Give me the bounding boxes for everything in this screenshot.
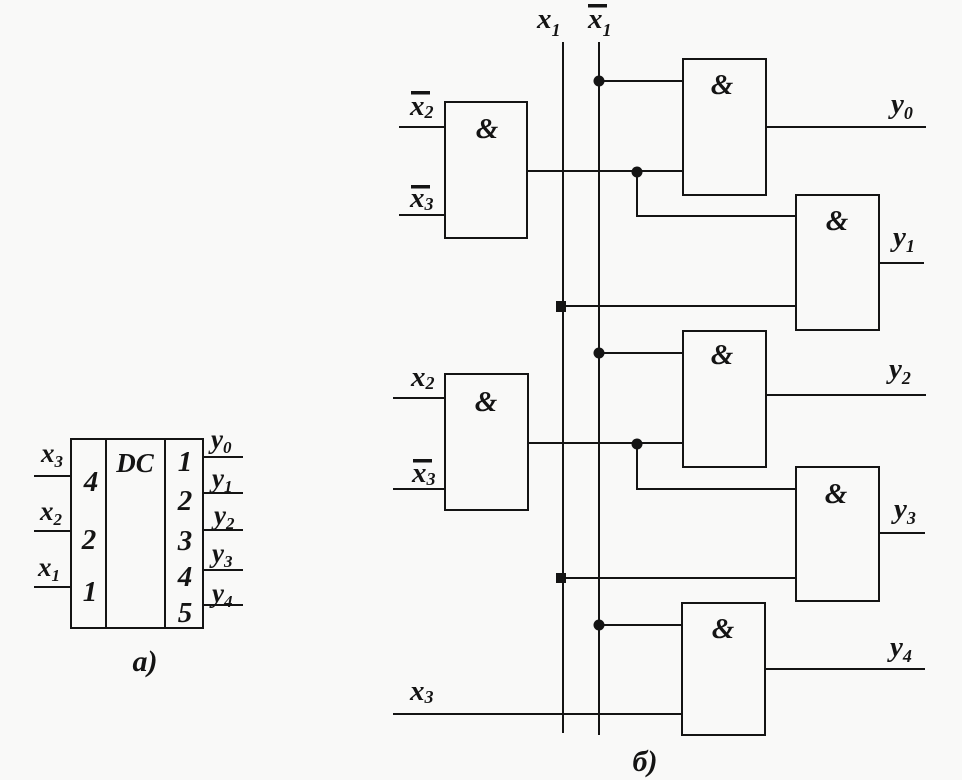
bus x1 vertical line	[562, 42, 564, 733]
junction node B1 dot	[632, 439, 643, 450]
overbar for not-x2	[411, 91, 430, 95]
junction square dot on x1 at gate U3 input	[556, 301, 566, 312]
wire x1 tap to gate U3	[563, 305, 796, 307]
wire output y1 of decoder	[203, 492, 243, 494]
wire gate A output to gate U2	[527, 170, 683, 172]
overbar for not-x3 gate A	[411, 185, 430, 189]
svg-text:&: &	[711, 69, 734, 101]
svg-text:1: 1	[178, 446, 193, 478]
wire not-x1 tap to gate U4	[599, 352, 683, 354]
wire branch down from node B1	[637, 443, 796, 489]
svg-text:5: 5	[178, 597, 193, 629]
svg-text:DC: DC	[115, 448, 154, 478]
and-gate U5 box	[796, 467, 879, 601]
wire output y0 of decoder	[203, 456, 243, 458]
bus not-x1 vertical line	[598, 42, 600, 735]
svg-text:2: 2	[177, 485, 193, 517]
svg-text:а): а)	[133, 645, 158, 678]
wire input x1 to decoder	[34, 586, 71, 588]
svg-text:&: &	[712, 613, 735, 645]
svg-text:4: 4	[83, 466, 99, 498]
wire gate U5 output y3	[879, 532, 925, 534]
wire gate U2 output y0	[766, 126, 926, 128]
wire x1 tap to gate U5	[563, 577, 796, 579]
wire gate U4 output y2	[766, 394, 926, 396]
wire not-x3 input to gate A	[399, 214, 445, 216]
junction dot on not-x1 at gate U6 input	[594, 620, 605, 631]
svg-text:&: &	[825, 478, 848, 510]
and-gate U3 box	[796, 195, 879, 330]
wire output y2 of decoder	[203, 529, 243, 531]
wire not-x1 tap to gate U6	[599, 624, 682, 626]
wire gate B output to gate U4	[528, 442, 683, 444]
wire not-x1 tap to gate U2	[599, 80, 683, 82]
wire output y4 of decoder	[203, 604, 243, 606]
wire output y3 of decoder	[203, 569, 243, 571]
svg-text:2: 2	[81, 524, 97, 556]
and-gate U6 box	[682, 603, 765, 735]
svg-text:&: &	[826, 205, 849, 237]
junction square dot on x1 at gate U5 input	[556, 573, 566, 583]
wire gate U6 output y4	[765, 668, 925, 670]
svg-text:&: &	[476, 113, 499, 145]
wire not-x2 input to gate A	[399, 126, 445, 128]
junction dot on not-x1 at gate U4 input	[594, 348, 605, 359]
overbar for not-x3 gate B	[413, 459, 432, 463]
decoder U1 left divider	[105, 439, 107, 628]
wire not-x3 input to gate B	[393, 488, 445, 490]
and-gate A box	[445, 102, 527, 238]
decoder U1 outer box	[71, 439, 203, 628]
svg-text:&: &	[711, 339, 734, 371]
svg-text:4: 4	[177, 561, 193, 593]
svg-text:б): б)	[633, 745, 658, 778]
svg-text:&: &	[475, 386, 498, 418]
and-gate U4 box	[683, 331, 766, 467]
wire x3 input to gate U6	[393, 713, 682, 715]
wire x2 input to gate B	[393, 397, 445, 399]
wire gate U3 output y1	[879, 262, 924, 264]
overbar for not-x1 bus label	[588, 4, 607, 8]
wire branch down from node A1	[637, 171, 796, 216]
and-gate U2 box	[683, 59, 766, 195]
and-gate B box	[445, 374, 528, 510]
svg-text:3: 3	[177, 525, 193, 557]
wire input x3 to decoder	[34, 475, 71, 477]
decoder U1 right divider	[164, 439, 166, 628]
junction dot on not-x1 at gate U2 input	[594, 76, 605, 87]
junction node A1 dot	[632, 167, 643, 178]
wire input x2 to decoder	[34, 530, 71, 532]
svg-text:1: 1	[83, 576, 98, 608]
